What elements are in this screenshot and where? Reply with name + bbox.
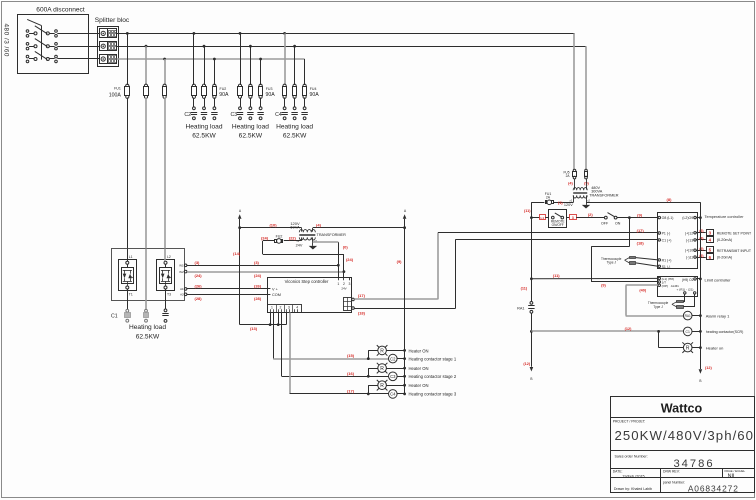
svg-text:Splitter bloc: Splitter bloc xyxy=(95,17,130,24)
svg-text:T1: T1 xyxy=(129,292,133,296)
svg-text:L1: L1 xyxy=(541,216,545,220)
wire coil to bus C3 xyxy=(397,376,405,378)
svg-text:C4: C4 xyxy=(275,112,282,118)
svg-text:R1 (+): R1 (+) xyxy=(662,258,672,262)
fuse FU1 120V xyxy=(546,201,547,204)
disconnect blade pole 1 xyxy=(35,26,48,34)
wire bus1 drop to control transformer xyxy=(573,33,575,169)
wire L2 supply stub xyxy=(696,217,700,219)
svg-text:480 /3 /60: 480 /3 /60 xyxy=(3,24,10,57)
svg-text:OFF: OFF xyxy=(601,222,609,226)
wire C2 fuse to contact phase 2 xyxy=(204,98,206,107)
temperature controller terminal (-)11 xyxy=(694,256,696,258)
svg-text:Heating load: Heating load xyxy=(185,124,222,131)
wire module L1 to contact xyxy=(127,289,129,309)
wire net 11 to limit controller xyxy=(530,277,533,280)
wire bus phase 3 xyxy=(117,58,305,60)
step controller 24V pins 1 2 3 xyxy=(338,277,340,280)
svg-text:R: R xyxy=(380,348,384,354)
wire net 26 SCR to step controller V+ xyxy=(187,288,271,290)
wire C3 fuse to contact phase 3 xyxy=(260,98,262,107)
limit controller terminal 2 xyxy=(658,281,660,283)
disconnect switch 600A box xyxy=(18,15,89,74)
fuse FU1 phase 3 xyxy=(163,84,166,87)
wire coil to bus C4 xyxy=(397,393,405,395)
svg-text:Temperature controller: Temperature controller xyxy=(705,215,745,219)
svg-text:(+)10: (+)10 xyxy=(685,249,693,253)
svg-text:62.5KW: 62.5KW xyxy=(192,133,216,140)
contactor contact C2 phase 1 xyxy=(193,107,196,110)
svg-text:RA1: RA1 xyxy=(517,306,524,310)
wire return up to pin 3a xyxy=(286,313,288,325)
svg-text:4: 4 xyxy=(296,306,298,310)
svg-text:62.5KW: 62.5KW xyxy=(283,133,307,140)
wire hot riser down xyxy=(531,202,533,301)
wire 0V secondary right xyxy=(312,237,314,242)
svg-text:Heating load: Heating load xyxy=(276,124,313,131)
SCR terminal A1 xyxy=(184,288,187,291)
svg-text:heating contactor(SCR): heating contactor(SCR) xyxy=(706,330,744,334)
contactor contact C3 phase 1 xyxy=(239,107,242,110)
node bus tap FU1 phase 3 xyxy=(163,58,166,61)
wire FU1 phase 2 to SCR box xyxy=(145,98,147,249)
relay coil C3 xyxy=(389,372,398,381)
svg-text:(3): (3) xyxy=(254,260,260,265)
svg-text:Heater ON: Heater ON xyxy=(409,348,429,353)
contactor contact C3 phase 2 xyxy=(249,107,252,110)
wire disconnect to splitter phase 3 xyxy=(57,58,99,60)
wire net 14 riser xyxy=(239,228,241,325)
wire thermocouple1 + xyxy=(636,258,658,260)
svg-text:IN1: IN1 xyxy=(179,264,184,268)
svg-text:DATE:: DATE: xyxy=(613,469,623,473)
svg-text:(+)12: (+)12 xyxy=(685,231,693,235)
disconnect pole 3 xyxy=(26,55,29,58)
svg-text:(9): (9) xyxy=(601,284,606,288)
svg-text:COM: COM xyxy=(272,293,281,297)
wire net 17 to temperature controller P1 xyxy=(438,232,658,234)
wire net 17 riser up xyxy=(437,233,439,299)
contactor contact C2 phase 3 xyxy=(213,107,216,110)
svg-text:ON/OFF: ON/OFF xyxy=(552,223,564,227)
wire net 18 step to riser xyxy=(354,308,455,310)
wire stage1 to coil C2 xyxy=(273,358,388,360)
node bus tap C3 phase 1 xyxy=(239,32,242,35)
wire 24V run to step controller xyxy=(263,254,344,256)
svg-text:(18): (18) xyxy=(637,241,645,246)
svg-text:Sales order Number:: Sales order Number: xyxy=(615,454,648,458)
svg-text:C1: C1 xyxy=(111,314,118,320)
wire drop C3 phase 3 xyxy=(260,59,262,85)
splitter terminal 3 xyxy=(100,55,108,64)
svg-text:90A: 90A xyxy=(309,92,319,98)
svg-text:(10): (10) xyxy=(269,222,277,227)
svg-text:(13): (13) xyxy=(250,326,258,331)
svg-text:A1: A1 xyxy=(180,287,184,291)
wire net 17 step to riser xyxy=(354,298,438,300)
node bus tap FU1 phase 2 xyxy=(145,45,148,48)
svg-text:A06834272: A06834272 xyxy=(688,483,739,493)
svg-text:IN2: IN2 xyxy=(179,270,184,274)
wire lamp to bus C3 xyxy=(386,368,404,370)
wire C4 fuse to contact phase 1 xyxy=(284,98,286,107)
svg-text:NIL: NIL xyxy=(728,473,736,479)
svg-text:24V: 24V xyxy=(296,244,303,248)
heater on lamp xyxy=(683,343,692,352)
contactor contact C3 phase 3 xyxy=(259,107,262,110)
remote on/off switch box xyxy=(545,217,548,219)
thermocouple 2 type J xyxy=(677,301,684,303)
contactor contact C4 phase 1 xyxy=(283,107,286,110)
temperature controller box xyxy=(658,213,698,269)
svg-text:3: 3 xyxy=(288,306,290,310)
wire coil to bus C2 xyxy=(397,358,405,360)
node bus tap FU1 phase 1 xyxy=(126,32,129,35)
svg-text:FU1: FU1 xyxy=(114,86,121,90)
svg-text:Alarm relay 1: Alarm relay 1 xyxy=(706,313,730,318)
svg-text:panel Number:: panel Number: xyxy=(663,480,685,484)
svg-text:Heater on: Heater on xyxy=(706,345,724,350)
node A riser left xyxy=(238,226,241,229)
svg-text:(26): (26) xyxy=(195,283,203,288)
alarm relay RA1 coil xyxy=(683,311,692,320)
svg-text:B: B xyxy=(530,377,532,381)
relay contact RA1 xyxy=(530,302,533,305)
continuation arrow A right xyxy=(404,219,406,228)
svg-text:2: 2 xyxy=(343,282,345,286)
svg-text:P1 (-): P1 (-) xyxy=(662,232,671,236)
wire stage1 pin drop xyxy=(273,313,275,359)
svg-text:Type J: Type J xyxy=(607,261,617,265)
node C1 coil row xyxy=(530,330,533,333)
svg-text:(24): (24) xyxy=(346,257,354,262)
wire stage3 pin drop xyxy=(289,313,291,394)
svg-text:(24): (24) xyxy=(254,273,262,278)
fuse FU3 phase 3 xyxy=(259,84,262,87)
temperature controller terminal P1 (-) xyxy=(658,232,660,234)
svg-text:24V: 24V xyxy=(341,287,346,291)
svg-text:3: 3 xyxy=(572,216,574,220)
wire lamp branch C3 xyxy=(368,368,378,370)
svg-text:(17): (17) xyxy=(347,389,355,394)
node remote row tap xyxy=(530,216,533,219)
svg-text:1: 1 xyxy=(271,306,273,310)
wire stage2 pin drop xyxy=(281,313,283,377)
svg-text:(L2)O9: (L2)O9 xyxy=(682,216,693,220)
disconnect pole 1 xyxy=(26,30,29,33)
svg-text:(14): (14) xyxy=(233,251,241,256)
temperature controller terminal (-)13 xyxy=(694,239,696,241)
wire stage3 to coil C4 xyxy=(290,393,389,395)
svg-text:(0-20mA): (0-20mA) xyxy=(717,256,732,260)
wire to L1 box xyxy=(531,217,539,219)
svg-text:100A: 100A xyxy=(109,92,122,98)
svg-text:Heating contactor stage 1: Heating contactor stage 1 xyxy=(409,356,457,361)
wire 120V secondary left xyxy=(573,195,575,202)
wire below RA1 contact xyxy=(531,313,533,367)
fuse FU2 phase 2 xyxy=(202,84,205,87)
svg-text:C3: C3 xyxy=(231,112,238,118)
svg-text:(28): (28) xyxy=(254,296,262,301)
fuse FU4 phase 2 xyxy=(293,84,296,87)
wire drop to fuse FU1 phase 1 xyxy=(127,33,129,85)
svg-text:(15): (15) xyxy=(347,353,355,358)
svg-text:Limit controller: Limit controller xyxy=(705,278,732,283)
wire 24V drop to pin 2 xyxy=(343,254,345,277)
node net24 on 24V riser xyxy=(343,270,346,273)
svg-text:(11): (11) xyxy=(521,286,528,290)
svg-text:R: R xyxy=(380,383,384,389)
wire net 3 SCR to 0V riser xyxy=(187,265,338,267)
svg-text:60VA: 60VA xyxy=(290,224,300,229)
terminal box 4 remote setpoint xyxy=(707,237,714,243)
svg-text:2: 2 xyxy=(279,306,281,310)
wire drop C4 phase 2 xyxy=(294,46,296,85)
step controller box xyxy=(268,278,352,313)
limit controller terminal ALM1 xyxy=(658,284,660,286)
wire net 18 to temperature controller C1 xyxy=(456,239,658,241)
svg-text:(12): (12) xyxy=(625,327,632,331)
wire net 9 drop xyxy=(629,218,631,247)
disconnect linkage bar xyxy=(41,26,43,60)
SCR terminal IN1 xyxy=(184,264,187,267)
wire 24V riser down xyxy=(262,241,264,254)
wire pin1a stub xyxy=(270,313,272,325)
wire stage2 to coil C3 xyxy=(282,376,389,378)
continuation arrow B left xyxy=(530,367,534,372)
SCR terminal A2 xyxy=(184,293,187,296)
panel on/off switch xyxy=(604,216,607,219)
wire disconnect to splitter phase 1 xyxy=(57,33,99,35)
svg-text:Drawn by: Khaled Labib: Drawn by: Khaled Labib xyxy=(614,487,652,491)
step controller output terminal block xyxy=(344,298,352,311)
wire FU1 phase 3 to SCR box xyxy=(164,98,166,249)
wire drop C3 phase 2 xyxy=(250,46,252,85)
temperature controller terminal O8 (L1) xyxy=(658,216,660,218)
svg-text:(0): (0) xyxy=(343,244,349,249)
thermocouple 1 type J xyxy=(630,257,636,259)
wire C4 fuse to contact phase 3 xyxy=(304,98,306,107)
wire bus phase 2 xyxy=(117,46,586,48)
transformer T1 480V:120V xyxy=(574,179,576,190)
svg-text:(8): (8) xyxy=(667,197,673,202)
svg-text:C2: C2 xyxy=(184,112,191,118)
wire module L2 to contact xyxy=(165,289,167,309)
terminal box 3 remote setpoint xyxy=(707,230,714,236)
svg-text:PROJECT / PROJET:: PROJECT / PROJET: xyxy=(613,420,646,424)
svg-text:(16): (16) xyxy=(347,371,355,376)
wire C2 fuse to contact phase 1 xyxy=(193,98,195,107)
fuse FU2 phase 3 xyxy=(213,84,216,87)
svg-text:Heating load: Heating load xyxy=(129,324,166,331)
terminal box 6 retransmit xyxy=(707,254,714,260)
disconnect blade pole 3 xyxy=(35,51,48,59)
svg-text:(4): (4) xyxy=(316,222,322,227)
fuse FU1 phase 2 xyxy=(144,84,147,87)
wire net 4 to riser xyxy=(313,227,405,229)
svg-text:+ (R1) - (21): + (R1) - (21) xyxy=(677,288,694,292)
contactor coil C1 xyxy=(683,327,692,336)
svg-text:62.5KW: 62.5KW xyxy=(239,133,263,140)
svg-text:120V: 120V xyxy=(564,203,573,207)
ground symbol T2 xyxy=(312,242,314,246)
svg-text:Viconics Step controller: Viconics Step controller xyxy=(285,279,329,284)
wire C2 fuse to contact phase 3 xyxy=(214,98,216,107)
wire net 9 to controller xyxy=(617,217,658,219)
svg-text:600A disconnect: 600A disconnect xyxy=(36,7,85,14)
wire bus2 drop to control transformer xyxy=(585,46,587,169)
svg-text:A2: A2 xyxy=(180,293,184,297)
temperature controller terminal C1 (+) xyxy=(658,239,660,241)
svg-text:Heating load: Heating load xyxy=(232,124,269,131)
temperature controller terminal S1 (-) xyxy=(658,265,660,267)
svg-text:L2: L2 xyxy=(167,255,171,259)
wire lamp to bus C2 xyxy=(386,350,404,352)
terminal box L1 xyxy=(540,215,546,220)
wire thermocouple1 - xyxy=(636,263,658,266)
wire C3 fuse to contact phase 2 xyxy=(250,98,252,107)
wire lamp branch C4 xyxy=(368,385,378,387)
svg-text:(H9) O2: (H9) O2 xyxy=(682,278,694,282)
node A riser right xyxy=(403,226,406,229)
svg-text:(26): (26) xyxy=(254,283,262,288)
node bus tap C2 phase 1 xyxy=(193,32,196,35)
transformer T2 120V:24V xyxy=(301,228,303,232)
continuation arrow A left xyxy=(239,219,241,228)
svg-text:3: 3 xyxy=(349,282,351,286)
wire net 9 to limit controller xyxy=(591,281,658,283)
wire into module L1 xyxy=(127,249,129,262)
svg-text:Wattco: Wattco xyxy=(661,401,703,415)
wire pin2a stub xyxy=(278,313,280,325)
temperature controller terminal (L2)O9 xyxy=(694,216,696,218)
svg-text:(9): (9) xyxy=(637,213,643,218)
svg-text:(1): (1) xyxy=(558,201,563,205)
wire disconnect to splitter phase 2 xyxy=(57,46,99,48)
svg-text:(24): (24) xyxy=(195,273,203,278)
lamp heater-on for C2 xyxy=(378,346,387,355)
svg-text:V +: V + xyxy=(272,288,279,292)
fuse FU2 phase 1 xyxy=(192,84,195,87)
wire into module L2 xyxy=(164,249,166,262)
wire lamp to bus C4 xyxy=(386,385,404,387)
wire net 2 xyxy=(576,217,604,219)
terminal box 3 xyxy=(567,217,570,219)
wire limit thermocouple + xyxy=(684,294,686,302)
svg-text:Type J: Type J xyxy=(653,305,663,309)
temperature controller terminal (+)10 xyxy=(694,249,696,251)
wire C4 fuse to contact phase 2 xyxy=(294,98,296,107)
wire drop C4 phase 1 xyxy=(284,33,286,85)
svg-text:250KW/480V/3ph/60: 250KW/480V/3ph/60 xyxy=(615,428,755,443)
svg-text:(-)13: (-)13 xyxy=(686,238,693,242)
wire limit thermocouple - xyxy=(694,294,696,307)
svg-text:FU2: FU2 xyxy=(220,87,227,91)
wire net 28 SCR to step controller COM xyxy=(187,294,271,296)
svg-text:C2: C2 xyxy=(390,356,396,361)
svg-text:(24): (24) xyxy=(261,235,269,240)
node bus tap C3 phase 2 xyxy=(249,45,252,48)
lamp heater-on for C4 xyxy=(378,381,387,390)
svg-text:C1 (+): C1 (+) xyxy=(662,238,672,242)
contactor contact C4 phase 2 xyxy=(293,107,296,110)
wire drop C4 phase 3 xyxy=(304,59,306,85)
wire heater-on lamp branch xyxy=(658,331,660,347)
svg-text:C4: C4 xyxy=(390,392,396,397)
title block xyxy=(611,397,755,493)
svg-text:R: R xyxy=(380,366,384,372)
fuse FU2 24V xyxy=(275,240,277,243)
continuation arrow B right xyxy=(699,369,703,374)
relay coil C4 xyxy=(389,390,398,399)
terminal box 5 retransmit xyxy=(707,247,714,253)
disconnect pole 2 xyxy=(26,43,29,46)
svg-text:DRW REV:: DRW REV: xyxy=(663,469,680,473)
wire net 14 bottom run xyxy=(240,324,287,326)
svg-text:90A: 90A xyxy=(219,92,229,98)
contactor C1 contact phase 2 xyxy=(145,309,148,312)
svg-text:FU2: FU2 xyxy=(276,234,283,238)
svg-text:TRANSFORMER: TRANSFORMER xyxy=(589,194,619,198)
wire drop C3 phase 1 xyxy=(240,33,242,85)
svg-text:(-)11: (-)11 xyxy=(686,256,693,260)
svg-text:(12): (12) xyxy=(523,362,530,366)
svg-text:(9): (9) xyxy=(397,259,403,264)
node bus tap C2 phase 3 xyxy=(213,58,216,61)
svg-text:(4): (4) xyxy=(568,182,573,186)
ground symbol T1 xyxy=(586,202,588,205)
wire net 12 to contactor coil C1 xyxy=(531,330,683,332)
temperature controller terminal (+)12 xyxy=(694,232,696,234)
svg-text:Heater ON: Heater ON xyxy=(409,366,429,371)
svg-text:(17): (17) xyxy=(637,228,645,233)
svg-text:O8 (L1): O8 (L1) xyxy=(662,216,674,220)
svg-text:T3: T3 xyxy=(167,292,171,296)
wire lamp branch C2 xyxy=(368,350,378,352)
temperature controller terminal R1 (+) xyxy=(658,259,660,261)
svg-text:(28): (28) xyxy=(195,296,203,301)
fuse FU3 phase 1 xyxy=(238,84,241,87)
node bus tap C4 phase 1 xyxy=(283,32,286,35)
contactor contact C2 phase 2 xyxy=(203,107,206,110)
svg-text:Heating contactor stage 3: Heating contactor stage 3 xyxy=(409,392,457,397)
svg-text:(17): (17) xyxy=(358,293,366,298)
SCR terminal IN2 xyxy=(184,270,187,273)
svg-text:B: B xyxy=(699,379,701,383)
fuse FU3 phase 2 xyxy=(249,84,252,87)
svg-text:62.5KW: 62.5KW xyxy=(136,334,160,341)
svg-text:RA1: RA1 xyxy=(685,314,691,318)
svg-text:(22): (22) xyxy=(289,236,297,241)
svg-text:L1: L1 xyxy=(129,255,133,259)
fuse FU1 phase 1 xyxy=(126,84,129,87)
svg-text:Heater ON: Heater ON xyxy=(409,383,429,388)
node net3 on 0V riser xyxy=(337,264,340,267)
wire 24V secondary left xyxy=(301,237,303,241)
svg-text:(11): (11) xyxy=(524,209,531,213)
wire net 24 from FU2 xyxy=(263,240,274,242)
wire 0V drop to pin 1 xyxy=(338,242,340,277)
contactor C1 contact phase 1 xyxy=(126,309,129,312)
wire relay common bus net 9 xyxy=(404,228,406,394)
wire phase2 through SCR box xyxy=(145,249,147,310)
wires to remote setpoint terminals xyxy=(696,232,706,234)
svg-text:(18): (18) xyxy=(358,311,366,316)
wire drop C2 phase 3 xyxy=(214,59,216,85)
fuse FU4 phase 1 xyxy=(283,84,286,87)
svg-text:1: 1 xyxy=(337,282,339,286)
svg-text:2A: 2A xyxy=(546,195,551,199)
